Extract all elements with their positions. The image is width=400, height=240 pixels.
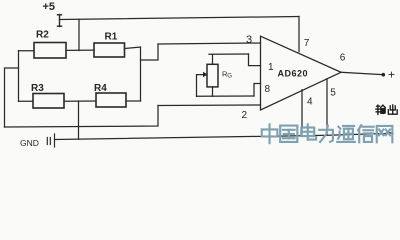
RG wiper arrowhead xyxy=(203,72,208,78)
watermark 中国电力通信网 (vector glyphs) xyxy=(262,124,393,143)
国 xyxy=(280,126,297,142)
svg-text:3: 3 xyxy=(246,34,252,46)
wire jog to pin3 xyxy=(141,44,159,60)
通 xyxy=(337,126,355,142)
wire pin4 vertical xyxy=(301,90,303,136)
wire bridge bottom junction to ground xyxy=(78,101,80,139)
wire top rail xyxy=(60,17,300,20)
wire pin8 stub xyxy=(254,84,261,97)
wire pin5 vertical xyxy=(326,79,328,136)
中 xyxy=(262,124,278,143)
svg-text:8: 8 xyxy=(265,84,271,95)
wire left branch xyxy=(5,68,19,127)
wire pin7 vertical xyxy=(298,17,300,52)
wire RG bottom xyxy=(197,95,255,97)
svg-text:R4: R4 xyxy=(94,83,107,94)
wire RG top xyxy=(209,53,249,55)
svg-text:+5: +5 xyxy=(43,1,56,13)
svg-text:6: 6 xyxy=(340,53,346,64)
svg-text:AD620: AD620 xyxy=(278,69,309,79)
output terminal dot xyxy=(382,73,386,77)
svg-text:GND: GND xyxy=(20,138,39,148)
wire +5 branch to bridge xyxy=(78,19,80,50)
力 xyxy=(319,126,333,142)
wire R3-R4 xyxy=(64,100,96,102)
wire R2-R1 xyxy=(66,49,94,51)
op-amp U1 AD620 triangle xyxy=(261,36,342,110)
wire ground rail xyxy=(55,133,394,140)
wire pin2 xyxy=(158,104,261,107)
resistor R1 xyxy=(94,43,125,57)
信 xyxy=(358,125,374,142)
wire R2 left xyxy=(19,50,35,52)
网 xyxy=(377,126,393,142)
resistor R4 xyxy=(96,93,126,107)
wire RG bottom lead xyxy=(212,87,214,96)
output chinese label 输出 (vector glyphs) xyxy=(376,105,397,114)
wire RG top lead xyxy=(212,54,214,64)
svg-text:2: 2 xyxy=(242,110,248,121)
svg-text:R3: R3 xyxy=(31,83,44,94)
wire R3 left xyxy=(19,100,34,102)
wire bottom in-minus run xyxy=(5,106,159,128)
wire right bridge node vertical xyxy=(140,47,142,101)
wire pin3 xyxy=(158,43,261,44)
svg-text:+: + xyxy=(388,68,395,82)
svg-text:4: 4 xyxy=(307,97,313,108)
ground terminal ticks xyxy=(47,134,54,147)
wire pin1 stub xyxy=(249,54,261,66)
wire output pin6 xyxy=(341,72,382,74)
svg-text:R2: R2 xyxy=(36,30,49,41)
power +5 terminal tick xyxy=(58,15,62,27)
svg-text:5: 5 xyxy=(330,88,336,99)
wire R4 right xyxy=(126,100,141,102)
svg-text:G: G xyxy=(227,74,232,80)
wire RG wiper return xyxy=(197,75,204,97)
RG value label xyxy=(222,70,232,80)
svg-text:7: 7 xyxy=(304,38,310,49)
potentiometer RG body xyxy=(207,64,218,87)
wire left bridge node vertical xyxy=(18,51,20,102)
wire R1 right xyxy=(125,47,141,49)
resistor R3 xyxy=(33,94,64,109)
电 xyxy=(301,124,316,139)
resistor R2 xyxy=(34,43,66,59)
svg-text:1: 1 xyxy=(268,62,274,73)
svg-text:R1: R1 xyxy=(105,32,118,43)
